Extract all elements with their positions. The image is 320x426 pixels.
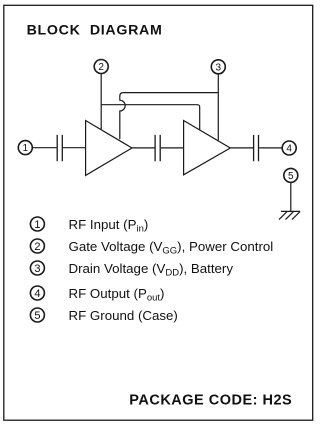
capacitor C1 bbox=[57, 135, 62, 161]
wire C1 to amplifier A1 bbox=[63, 147, 86, 149]
svg-text:1: 1 bbox=[23, 143, 29, 154]
capacitor C3 bbox=[254, 135, 259, 161]
svg-text:PACKAGE CODE: H2S: PACKAGE CODE: H2S bbox=[129, 392, 292, 408]
svg-text:2: 2 bbox=[34, 241, 40, 253]
svg-text:1: 1 bbox=[34, 219, 40, 231]
svg-text:RF Input (Pin): RF Input (Pin) bbox=[69, 217, 149, 235]
capacitor C2 bbox=[155, 135, 160, 161]
wire VGG net: terminal2 down to A1 gate, branch to A2 gate bbox=[101, 74, 200, 130]
svg-text:2: 2 bbox=[98, 62, 104, 73]
svg-text:4: 4 bbox=[34, 288, 40, 300]
svg-text:5: 5 bbox=[34, 310, 40, 322]
terminal 2 (gate voltage node) bbox=[94, 60, 108, 74]
wire C2 to amplifier A2 bbox=[161, 147, 184, 149]
legend node 2 bbox=[30, 239, 44, 253]
svg-text:3: 3 bbox=[34, 263, 40, 275]
wire A1 to C2 bbox=[132, 147, 155, 149]
legend node 3 bbox=[30, 261, 44, 275]
terminal 4 (RF output node) bbox=[282, 141, 296, 155]
legend node 4 bbox=[30, 286, 44, 300]
wire A2 to C3 bbox=[230, 147, 253, 149]
wire terminal5 to ground bbox=[290, 183, 292, 212]
terminal 5 (RF ground node) bbox=[284, 168, 298, 182]
legend node 1 bbox=[30, 217, 44, 231]
terminal 1 (RF input node) bbox=[18, 141, 32, 155]
op-amp A1 (first stage amplifier) bbox=[86, 121, 132, 176]
ground (chassis ground symbol) bbox=[279, 211, 300, 219]
op-amp A2 (second stage amplifier) bbox=[184, 121, 231, 175]
wire terminal1 to C1 bbox=[33, 147, 57, 149]
svg-text:5: 5 bbox=[288, 171, 294, 182]
svg-text:BLOCK DIAGRAM: BLOCK DIAGRAM bbox=[27, 23, 163, 39]
svg-text:RF Ground (Case): RF Ground (Case) bbox=[69, 308, 178, 323]
terminal 3 (drain voltage node) bbox=[211, 60, 225, 74]
svg-text:4: 4 bbox=[286, 144, 292, 155]
wire VDD net: terminal3 down to A2 drain, branch with crossover hop to A1 drain bbox=[120, 74, 219, 140]
svg-text:Drain Voltage (VDD), Battery: Drain Voltage (VDD), Battery bbox=[69, 261, 234, 279]
svg-text:3: 3 bbox=[216, 62, 222, 73]
legend node 5 bbox=[30, 308, 44, 322]
wire C3 to terminal 4 bbox=[259, 147, 282, 149]
